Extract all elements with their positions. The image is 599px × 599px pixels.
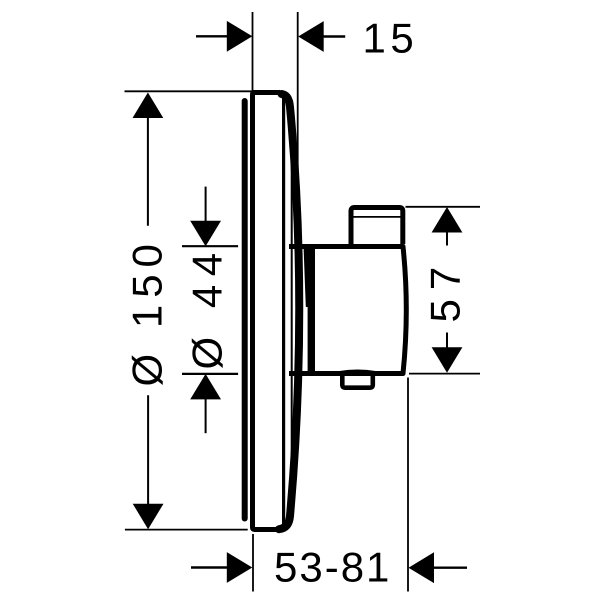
dim 15 right arrow bbox=[298, 21, 324, 52]
handle knob inner line bbox=[354, 216, 402, 218]
dim 53-81 extension line left bbox=[252, 534, 254, 592]
dim 44 bottom tick bbox=[182, 373, 238, 375]
dim 44 top tick bbox=[182, 245, 238, 247]
dim 150 top arrow bbox=[133, 93, 164, 119]
svg-text:Ø 150: Ø 150 bbox=[124, 237, 171, 386]
dim 15 left arrow bbox=[227, 21, 253, 52]
dim 53-81 extension line right bbox=[407, 378, 409, 592]
dim 44 bottom arrow bbox=[190, 374, 221, 400]
dim 44 bottom tail bbox=[205, 398, 207, 434]
svg-text:Ø 44: Ø 44 bbox=[184, 244, 231, 369]
escutcheon plate outline bbox=[253, 93, 281, 530]
dim 15 extension line left bbox=[252, 12, 254, 92]
dim 150 bottom arrow bbox=[133, 504, 164, 530]
dim 15 left leader bbox=[196, 35, 228, 37]
dim 57 extension line bottom bbox=[409, 373, 480, 375]
dim 57 top arrow bbox=[432, 207, 463, 233]
valve body flange thick bar bbox=[308, 249, 315, 371]
dim 150 extension line top bbox=[125, 90, 253, 92]
bottom tab bbox=[342, 375, 373, 388]
dim 57 bottom tail bbox=[446, 333, 448, 349]
escutcheon plate rear edge curve bbox=[279, 94, 299, 529]
dim 53-81 left arrow bbox=[227, 552, 253, 583]
dim 150 extension line bottom bbox=[125, 529, 248, 531]
dim 53-81 right arrow bbox=[409, 552, 435, 583]
dim 44 top arrow bbox=[190, 221, 221, 247]
escutcheon plate face inner line bbox=[282, 97, 285, 526]
dim 57 bottom arrow bbox=[432, 347, 463, 373]
body bottom edge bump over tab bbox=[339, 372, 376, 374]
dim 57 extension line top bbox=[406, 206, 481, 208]
svg-text:15: 15 bbox=[363, 15, 419, 62]
dim 15 right leader bbox=[324, 35, 346, 37]
escutcheon plate back face line bbox=[291, 100, 293, 520]
dim 44 top tail bbox=[205, 187, 207, 223]
valve body flange thin line bbox=[304, 249, 309, 308]
dim 57 top tail bbox=[446, 231, 448, 246]
handle knob outline bbox=[351, 208, 403, 245]
valve body outline bbox=[289, 247, 406, 374]
dim 150 lower dim line bbox=[147, 395, 149, 506]
dim 150 upper dim line bbox=[147, 116, 149, 226]
escutcheon plate front lip bbox=[242, 101, 248, 519]
dim 53-81 right leader bbox=[434, 567, 467, 569]
svg-text:53-81: 53-81 bbox=[274, 544, 391, 591]
dim 53-81 left leader bbox=[191, 566, 228, 568]
dim 15 extension line right bbox=[297, 12, 299, 204]
svg-text:57: 57 bbox=[422, 258, 469, 323]
